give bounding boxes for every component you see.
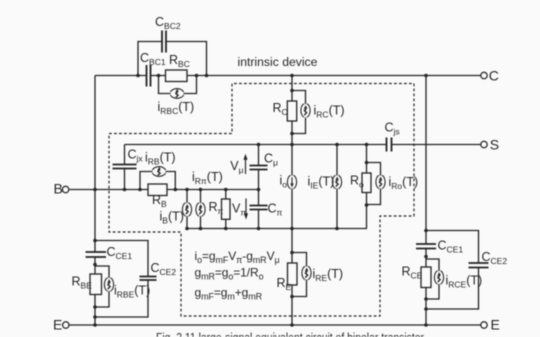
wire iRC loop [292,91,306,105]
resistor RC [287,101,296,121]
wire Cjx column [124,145,126,165]
Vpi arrow [244,199,248,220]
svg-text:Fig. 2.11 large-signal equival: Fig. 2.11 large-signal equivalent circui… [156,332,424,337]
current source iIE [332,175,341,189]
wire RE branch [291,229,293,264]
capacitor Cmu [250,165,268,167]
wire Ro branch [366,145,368,174]
wire CCE2 left branch [95,241,148,277]
current source iRCE [434,271,443,285]
current source iRE [302,266,311,280]
wire io branch [291,145,293,176]
wire iIE branch [336,145,338,176]
capacitor CBC1 [146,65,148,87]
svg-text:C: C [489,67,499,83]
svg-text:intrinsic device: intrinsic device [238,55,318,69]
capacitor CCE2 left [140,276,157,278]
left vertical wire [94,76,96,253]
capacitor CCE1 left [86,251,107,253]
current source iRBC [170,89,183,99]
dashed intrinsic device boundary [109,84,414,317]
Vmu arrow [243,154,247,174]
current source iB [182,203,191,217]
wire E bottom line [70,324,481,326]
wire iRB loop [140,172,153,190]
wire B-line [70,189,149,191]
wire iRo loop [367,163,381,176]
wire internal emitter rail [187,228,367,230]
terminal S [481,141,487,147]
wire iRBC loop [159,76,171,94]
svg-text:S: S [490,136,499,152]
wire iB branch [186,190,188,204]
terminal E left [63,322,69,328]
resistor Ro [362,173,371,193]
resistor RB [148,184,167,196]
current source iRo [376,175,385,189]
wire RC branch [291,76,293,101]
wire iRCE loop [426,259,439,271]
wire S-rail [125,144,387,146]
resistor Rpi branch [225,190,227,200]
wire iRBE loop [95,266,109,278]
wire C-line from left wire to C terminal [95,75,147,77]
resistor RE [288,263,298,285]
right vertical wire [425,76,427,245]
wire CBC2 loop [138,42,162,76]
resistor RBC [166,70,188,82]
capacitor Cjs [386,138,388,152]
capacitor CCE2 right [469,262,489,264]
resistor RBE [90,274,102,295]
wire iRE loop [292,253,307,267]
current source iRBE [104,278,113,292]
wire iRpi branch [200,190,202,204]
current source iRB [152,167,165,177]
capacitor Cjx [113,164,137,166]
wire Cmu/Cpi column [258,145,260,166]
capacitor Cpi [250,205,268,207]
current source io (controlled) [287,175,296,189]
terminal C [481,72,487,78]
wire CCE2 right branch [426,231,479,264]
svg-text:E: E [53,317,62,333]
current source iRpi [196,203,205,217]
capacitor CCE1 right [416,243,436,245]
terminal B [62,186,68,192]
svg-text:B: B [54,180,63,196]
capacitor CBC2 [161,31,163,53]
svg-text:E: E [491,316,500,332]
terminal E right [481,322,487,328]
resistor RCE [421,267,431,288]
current source iRC [301,104,310,118]
